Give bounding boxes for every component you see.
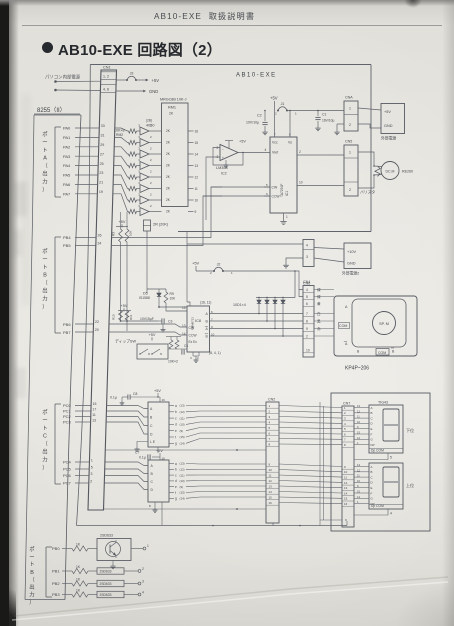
svg-text:10V/10µ: 10V/10µ	[246, 121, 259, 125]
svg-text:16: 16	[344, 502, 348, 506]
svg-text:14: 14	[357, 495, 360, 499]
svg-text:1: 1	[269, 404, 271, 408]
wire GND from CN1 pin4,6	[54, 89, 57, 92]
svg-text:CNA: CNA	[345, 96, 353, 100]
resistor 10K series PA4	[129, 175, 137, 179]
op-amp feedback loop	[213, 148, 243, 166]
svg-text:(10): (10)	[180, 423, 185, 427]
svg-text:1: 1	[231, 271, 233, 275]
buffer 4050 unit 5	[140, 173, 149, 181]
decoder2 output f	[169, 492, 174, 494]
Q1 emitter ground	[112, 561, 114, 565]
svg-text:PA4: PA4	[63, 163, 71, 168]
svg-text:g: g	[175, 497, 177, 501]
wire to op-amp plus input	[206, 157, 220, 220]
trimmer VR1 (20K)	[144, 220, 151, 231]
svg-text:4: 4	[390, 512, 392, 516]
decoder1 output f	[169, 436, 174, 438]
DS2 segment pin 14	[354, 497, 369, 499]
wire digit select 1	[105, 449, 266, 451]
decoder1 output d	[169, 423, 174, 425]
svg-text:RM1: RM1	[168, 106, 176, 110]
wire CW route	[211, 186, 270, 188]
svg-text:C7: C7	[135, 451, 139, 455]
svg-text:A: A	[43, 156, 47, 162]
svg-text:B: B	[392, 350, 395, 354]
decoder1 output b	[169, 411, 174, 413]
svg-text:B: B	[150, 416, 153, 420]
RM1 pin 16 stub	[188, 130, 194, 132]
diode D4 10D1	[282, 298, 284, 301]
svg-text:(11): (11)	[180, 416, 185, 420]
svg-text:2: 2	[217, 146, 219, 150]
svg-text:26: 26	[98, 234, 102, 238]
svg-text:10D1×4: 10D1×4	[233, 303, 246, 307]
svg-text:（: （	[42, 441, 48, 448]
resistor R4 10K	[125, 229, 129, 242]
wire CN2-CN7 digit2 line 6	[279, 492, 342, 494]
svg-text:バリスタ: バリスタ	[360, 190, 375, 195]
svg-text:16: 16	[195, 129, 199, 133]
header	[154, 10, 255, 22]
svg-text:2: 2	[210, 271, 212, 275]
jumper J1	[277, 110, 279, 112]
port A bracket	[54, 127, 56, 197]
svg-text:CCW: CCW	[272, 195, 281, 199]
svg-text:PB7: PB7	[63, 330, 71, 335]
svg-text:15: 15	[182, 306, 186, 310]
svg-text:8: 8	[344, 443, 346, 447]
svg-text:（: （	[42, 280, 48, 287]
decoder1 output e	[169, 430, 174, 432]
svg-text:4: 4	[306, 288, 308, 292]
svg-text:SP. M: SP. M	[379, 322, 389, 326]
wire CN2-CN7 digit1 line 3	[279, 417, 342, 419]
svg-text:出: 出	[42, 170, 47, 178]
svg-text:外部電源2: 外部電源2	[342, 271, 359, 276]
svg-text:PB0: PB0	[52, 546, 60, 551]
DS1 segment pin 1	[354, 444, 369, 446]
svg-text:PB5: PB5	[63, 243, 71, 248]
svg-text:2: 2	[269, 409, 271, 413]
svg-text:2: 2	[150, 181, 152, 185]
svg-text:1: 1	[349, 107, 351, 111]
capacitor C1 16V/10u	[317, 111, 319, 117]
wire CN2-CN7 digit2 line 5	[279, 486, 342, 488]
svg-text:2: 2	[349, 188, 351, 192]
svg-text:2: 2	[150, 147, 152, 151]
svg-text:F: F	[371, 432, 373, 436]
wire CN2-CN7 digit2 line 1	[279, 464, 342, 467]
svg-text:29: 29	[100, 143, 104, 147]
ghost bleed-through marks	[13, 182, 27, 216]
right edge darker	[442, 0, 454, 626]
svg-text:11: 11	[92, 413, 96, 417]
svg-text:上位: 上位	[406, 482, 414, 488]
svg-text:）: ）	[42, 464, 47, 471]
svg-text:2K: 2K	[169, 112, 174, 116]
wires DIP to IC8	[168, 348, 187, 350]
DS2 segment pin 9	[354, 487, 369, 489]
svg-text:C1: C1	[322, 113, 326, 117]
DS2 segment pin 1	[354, 503, 369, 505]
svg-text:16V/10µ: 16V/10µ	[322, 119, 334, 123]
svg-text:27: 27	[100, 152, 104, 156]
svg-text:15: 15	[357, 490, 360, 494]
svg-text:+10V: +10V	[347, 250, 356, 254]
svg-text:下位: 下位	[406, 427, 414, 433]
wire CN2-CN7 digit2 line 7	[279, 497, 342, 498]
capacitor C4	[181, 349, 183, 354]
svg-text:(16, 11): (16, 11)	[200, 301, 211, 305]
svg-text:ト: ト	[29, 562, 34, 568]
svg-text:13: 13	[92, 418, 96, 422]
svg-text:+5V: +5V	[239, 140, 246, 144]
svg-text:0.1µ: 0.1µ	[110, 396, 117, 400]
buffer 4050 unit 8	[140, 208, 149, 216]
DS1 segment pin 11	[354, 417, 369, 419]
svg-text:DC.M: DC.M	[386, 169, 395, 173]
svg-text:（: （	[42, 163, 48, 170]
svg-text:14: 14	[357, 436, 360, 440]
svg-text:13: 13	[182, 324, 186, 328]
svg-text:ー: ー	[42, 418, 47, 424]
svg-text:g: g	[175, 442, 177, 446]
wire +V to CN4 pins 4,5	[295, 271, 303, 290]
paper left dark edge	[0, 0, 9, 626]
svg-text:ポ: ポ	[42, 130, 47, 138]
svg-text:外部電源: 外部電源	[381, 136, 396, 141]
wires CN4 to motor	[314, 289, 334, 291]
motor SP.M circle	[373, 312, 396, 335]
svg-text:B: B	[43, 273, 47, 279]
svg-text:D: D	[371, 422, 373, 426]
svg-text:CN1: CN1	[103, 66, 111, 70]
8255 boundary box	[34, 114, 81, 116]
svg-text:31: 31	[101, 134, 105, 138]
RM1 pin 10 stub	[188, 199, 194, 201]
svg-text:PA5: PA5	[63, 173, 71, 178]
svg-text:14: 14	[195, 152, 199, 156]
svg-text:13: 13	[269, 484, 273, 488]
DS1 segment pin 12	[354, 412, 369, 414]
decoder1 LE to ground	[137, 442, 148, 448]
svg-text:2: 2	[306, 334, 308, 338]
svg-text:6: 6	[266, 192, 268, 196]
svg-text:A: A	[345, 342, 348, 346]
svg-text:GND: GND	[384, 124, 393, 128]
svg-text:13: 13	[344, 486, 348, 490]
RM1 pin 15 stub	[188, 142, 194, 144]
transistor Q4 2SD633	[97, 591, 124, 597]
svg-text:6: 6	[306, 302, 308, 306]
wire Vcc/Vs to +5V rail	[274, 111, 276, 138]
svg-text:ト: ト	[42, 426, 47, 432]
IC decoder U5 4511	[148, 402, 169, 447]
svg-text:7: 7	[306, 312, 308, 316]
svg-text:CW: CW	[189, 326, 195, 330]
external supply box	[381, 104, 405, 134]
resistor 10K series PA1	[129, 140, 137, 144]
svg-text:4: 4	[142, 591, 144, 595]
svg-text:PA0: PA0	[63, 126, 71, 131]
svg-text:+: +	[222, 156, 224, 160]
resistor 10K series PA5	[129, 186, 137, 190]
svg-text:J1: J1	[281, 102, 285, 106]
wire CN6 pin3 to ground	[286, 258, 303, 263]
svg-text:CCW: CCW	[189, 334, 198, 338]
svg-text:3: 3	[344, 417, 346, 421]
IC decoder U6 4511	[148, 460, 169, 502]
svg-text:2K: 2K	[166, 210, 171, 214]
display unit frame	[331, 393, 430, 531]
svg-text:PB4: PB4	[63, 235, 71, 240]
svg-text:11: 11	[269, 473, 272, 477]
RM1 pin 9 stub	[188, 211, 194, 213]
svg-text:(2B): (2B)	[146, 119, 152, 123]
svg-text:e: e	[175, 429, 177, 433]
svg-text:3: 3	[306, 255, 308, 259]
wire CN7 common lines	[320, 519, 342, 521]
svg-text:C8: C8	[133, 392, 137, 396]
svg-text:B: B	[371, 411, 373, 415]
svg-text:+5V: +5V	[156, 449, 163, 453]
wires CN5 to motor	[358, 152, 382, 167]
svg-text:2SD633: 2SD633	[100, 582, 112, 586]
svg-text:R10: R10	[112, 314, 116, 320]
svg-text:2: 2	[150, 158, 152, 162]
svg-text:c: c	[175, 473, 177, 477]
svg-text:A: A	[150, 407, 153, 411]
svg-text:24: 24	[97, 242, 101, 246]
svg-text:黒: 黒	[317, 320, 321, 324]
resistor R11 10K	[125, 311, 129, 321]
svg-text:2K: 2K	[166, 152, 171, 156]
wire CN2-CN7 digit1 line 2	[279, 411, 342, 413]
svg-text:IS1588: IS1588	[139, 296, 150, 300]
svg-text:C: C	[151, 480, 154, 484]
title	[42, 42, 53, 53]
svg-text:J3: J3	[130, 72, 134, 76]
svg-text:11: 11	[195, 187, 199, 191]
wire CN2-CN7 digit1 line 6	[279, 433, 342, 434]
RM1 pin 13 stub	[188, 165, 194, 167]
svg-text:5: 5	[269, 426, 271, 430]
svg-text:C: C	[150, 424, 153, 428]
wire +5V from CN1 pin1,2	[54, 80, 57, 83]
svg-text:C2: C2	[257, 114, 262, 118]
svg-text:2: 2	[142, 567, 144, 571]
svg-text:RE260: RE260	[402, 170, 413, 174]
svg-text:IC1: IC1	[285, 191, 289, 196]
svg-text:10K: 10K	[170, 297, 177, 301]
wire CN2-CN7 digit1 line 5	[279, 428, 342, 429]
svg-text:14: 14	[182, 332, 186, 336]
svg-text:7: 7	[269, 437, 271, 441]
external supply 2 box	[344, 243, 371, 269]
svg-text:2K: 2K	[166, 164, 171, 168]
svg-text:5: 5	[266, 183, 268, 187]
svg-text:力: 力	[42, 177, 47, 185]
resistor 10K series PA2	[129, 152, 137, 156]
svg-text:2: 2	[344, 411, 346, 415]
svg-text:C5: C5	[184, 344, 188, 348]
DS1 segment pin 15	[354, 433, 369, 435]
svg-text:9: 9	[306, 327, 308, 331]
svg-text:(14): (14)	[180, 442, 185, 446]
svg-text:COM: COM	[378, 351, 386, 355]
svg-text:CN4: CN4	[303, 280, 310, 284]
buffer 4050 unit 4	[140, 162, 149, 170]
svg-text:9: 9	[344, 465, 346, 469]
svg-text:C: C	[371, 475, 373, 479]
wire CN2-CN7 digit1 line 8	[279, 443, 342, 446]
svg-text:B: B	[206, 334, 209, 338]
svg-text:+5V: +5V	[192, 261, 200, 266]
buffer 4050 unit 6	[140, 185, 149, 193]
svg-text:出: 出	[42, 448, 47, 456]
svg-text:15: 15	[269, 495, 273, 499]
svg-text:4: 4	[306, 244, 308, 248]
jumper J3	[126, 79, 128, 81]
svg-text:1: 1	[147, 544, 149, 548]
svg-text:PC7: PC7	[63, 481, 72, 486]
svg-text:1: 1	[286, 215, 288, 219]
IC U1 TA7291P	[270, 137, 297, 213]
svg-text:2: 2	[150, 204, 152, 208]
svg-text:）: ）	[29, 599, 34, 606]
svg-text:PC6: PC6	[63, 473, 72, 478]
svg-text:2SD633: 2SD633	[100, 570, 112, 574]
ground bus wire bottom	[77, 525, 348, 527]
svg-text:ー: ー	[29, 555, 34, 561]
svg-text:5: 5	[390, 456, 392, 460]
wire +10V feed to CN6 pin4	[187, 243, 303, 245]
wire CN2-CN7 digit2 line 4	[279, 481, 342, 483]
svg-text:L E: L E	[150, 440, 156, 444]
svg-text:E: E	[371, 427, 373, 431]
svg-text:12: 12	[195, 175, 199, 179]
svg-text:D5: D5	[143, 292, 148, 296]
svg-text:10: 10	[344, 470, 348, 474]
svg-text:9: 9	[195, 210, 197, 214]
CN1 pins 1,2 (+5V)	[101, 71, 117, 73]
svg-text:f: f	[175, 435, 176, 439]
svg-text:D: D	[371, 481, 373, 485]
wire op-amp supply	[228, 141, 230, 149]
svg-text:G: G	[371, 438, 374, 442]
svg-text:PB2: PB2	[52, 581, 60, 586]
svg-text:25: 25	[100, 162, 104, 166]
svg-text:（: （	[29, 576, 35, 583]
buffer 4050 unit 2	[140, 139, 149, 147]
device frame AB10-EXE	[90, 64, 371, 66]
resistor 10K series PA3	[129, 163, 137, 167]
svg-text:12: 12	[357, 468, 360, 472]
svg-text:黄: 黄	[317, 301, 321, 306]
svg-text:d: d	[175, 479, 177, 483]
DS1 segment pin 10	[354, 422, 369, 424]
decoder1 output g	[169, 442, 174, 444]
svg-text:a: a	[175, 404, 177, 408]
RM1 pin 12 stub	[188, 176, 194, 178]
svg-text:10: 10	[299, 181, 303, 185]
svg-text:TIG43: TIG43	[378, 401, 388, 405]
ground below op-amp	[225, 163, 227, 165]
svg-text:ディップSW: ディップSW	[115, 339, 136, 344]
port B bottom bracket	[45, 547, 47, 597]
svg-text:A: A	[371, 465, 373, 469]
svg-text:(10): (10)	[180, 479, 185, 483]
svg-text:10K: 10K	[129, 231, 133, 236]
svg-text:(8, 4, 1): (8, 4, 1)	[209, 351, 221, 355]
svg-text:8: 8	[149, 504, 151, 508]
svg-text:13: 13	[357, 463, 360, 467]
DS2 segment pin 12	[354, 471, 369, 473]
stepper motor assembly KP4P-206	[334, 296, 417, 356]
DS1 common pin 5	[354, 453, 388, 460]
IC1 ground pin 1	[283, 213, 285, 219]
svg-text:15: 15	[357, 431, 360, 435]
svg-text:1: 1	[349, 151, 351, 155]
DS2 segment pin 11	[354, 476, 369, 478]
svg-text:22: 22	[95, 320, 99, 324]
svg-text:2SD633: 2SD633	[100, 534, 113, 538]
svg-text:ー: ー	[42, 257, 47, 263]
Q1 collector output	[131, 548, 143, 550]
svg-text:力: 力	[29, 591, 34, 599]
resistor 10K series PA7	[129, 209, 137, 213]
svg-text:(12): (12)	[180, 410, 185, 414]
IC U8 stepper controller	[187, 306, 210, 352]
svg-text:B: B	[357, 350, 360, 354]
svg-text:4, 6: 4, 6	[103, 88, 109, 92]
top dark band	[0, 0, 454, 6]
op-amp U2 LM358	[220, 145, 238, 161]
wires CNA to supply	[358, 108, 381, 110]
transistor Q2 2SD633	[97, 568, 124, 574]
wire: header rule	[22, 25, 442, 27]
wire CN2-CN7 digit2 line 2	[279, 470, 342, 472]
svg-text:14: 14	[269, 490, 273, 494]
svg-text:Vs: Vs	[288, 141, 292, 145]
svg-text:10: 10	[195, 198, 199, 202]
DS2 segment pin 15	[354, 492, 369, 494]
svg-text:RM2: RM2	[116, 133, 123, 137]
svg-text:TA7291P: TA7291P	[280, 183, 284, 197]
svg-text:ー: ー	[42, 140, 47, 146]
svg-text:パソコン内部電源: パソコン内部電源	[45, 73, 81, 80]
varistor	[375, 166, 380, 176]
decoder1 output c	[169, 417, 174, 419]
svg-text:3: 3	[269, 415, 271, 419]
svg-text:LM358: LM358	[216, 166, 228, 170]
svg-text:d: d	[175, 423, 177, 427]
wires CN6 to ext supply 2	[314, 248, 344, 250]
svg-text:2: 2	[150, 170, 152, 174]
svg-text:PA1: PA1	[63, 135, 71, 140]
svg-text:PB3: PB3	[52, 592, 60, 597]
svg-text:e: e	[175, 485, 177, 489]
svg-text:B: B	[151, 472, 154, 476]
buffer 4050 unit 7	[140, 196, 149, 204]
svg-text:ポ: ポ	[29, 545, 34, 553]
svg-text:A: A	[206, 312, 209, 316]
svg-text:3: 3	[91, 472, 93, 476]
svg-text:17: 17	[92, 407, 96, 411]
svg-text:10K×8: 10K×8	[114, 129, 125, 133]
svg-text:14: 14	[344, 491, 348, 495]
